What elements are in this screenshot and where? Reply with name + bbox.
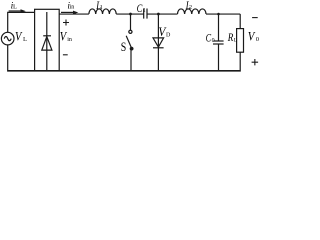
capacitor C0 upper stem (218, 14, 220, 41)
svg-text:2: 2 (189, 5, 192, 11)
label minus Vin (63, 54, 68, 56)
switch S upper stem (130, 14, 132, 30)
svg-text:V: V (15, 29, 23, 44)
node C0 top (217, 13, 220, 16)
label plus Vin (63, 20, 69, 26)
svg-text:L: L (13, 4, 17, 11)
switch S blade (126, 36, 131, 48)
switch S contact circle (129, 30, 132, 33)
capacitor C1 right plate (146, 9, 148, 19)
wire C1 to L2 (147, 13, 178, 15)
svg-text:D: D (166, 32, 171, 38)
capacitor C0 lower stem (218, 44, 220, 70)
bridge diode triangle (42, 37, 52, 51)
bottom rail (7, 70, 241, 72)
current arrow iL (9, 10, 21, 12)
svg-text:in: in (67, 37, 72, 43)
bridge diode cathode bar (43, 35, 51, 37)
capacitor C1 left plate (143, 9, 145, 19)
inductor L2 (178, 9, 207, 14)
wire L2 to output corner (206, 13, 240, 15)
capacitor C0 bottom plate (213, 43, 224, 45)
wire source bottom to bottom rail (7, 45, 9, 70)
top rail bridge to L1 (59, 13, 89, 15)
bridge diode stem upper (46, 12, 48, 70)
label plus V0 (252, 59, 259, 65)
node switch top (129, 13, 132, 16)
svg-text:1: 1 (143, 8, 146, 14)
svg-text:in: in (70, 5, 75, 11)
current arrow iin (61, 11, 74, 13)
inductor L1 (89, 9, 116, 14)
AC source VL (1, 32, 14, 45)
diode VD triangle (153, 38, 164, 47)
switch S lower dot (130, 47, 134, 51)
svg-text:0: 0 (256, 36, 259, 43)
diode VD cathode bar (153, 47, 164, 49)
label minus V0 (252, 17, 258, 19)
svg-text:L: L (23, 36, 27, 43)
wire L1 to C1 (116, 13, 144, 15)
resistor RL box (237, 29, 244, 53)
output right branch lower stem (239, 52, 241, 70)
bridge rectifier box (35, 9, 60, 70)
wire source top to bridge (8, 12, 35, 32)
node diode VD top (157, 13, 160, 16)
capacitor C0 top plate (213, 40, 223, 42)
output right branch upper stem (239, 14, 241, 29)
diode VD upper stem (157, 14, 159, 70)
svg-text:0: 0 (212, 38, 215, 44)
switch S lower stem (130, 49, 132, 71)
svg-text:1: 1 (100, 5, 103, 11)
svg-text:S: S (121, 39, 127, 54)
